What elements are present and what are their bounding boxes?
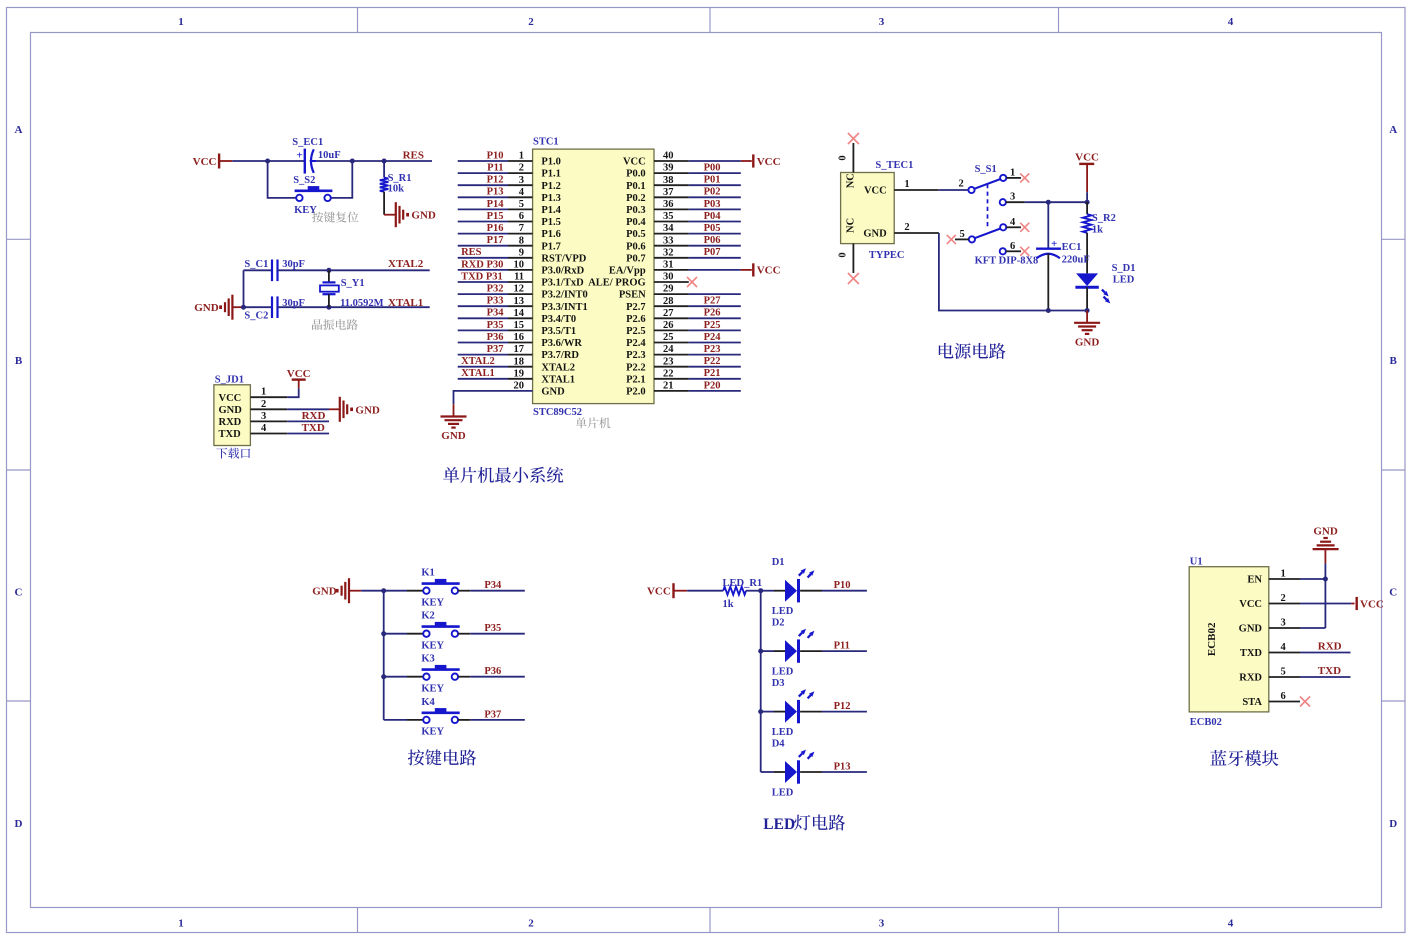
svg-text:STC89C52: STC89C52	[533, 407, 582, 418]
svg-text:36: 36	[663, 199, 674, 210]
svg-text:1k: 1k	[1092, 224, 1103, 235]
svg-text:18: 18	[514, 356, 525, 367]
svg-text:RES: RES	[461, 247, 482, 258]
svg-text:2: 2	[959, 178, 964, 189]
svg-text:LED: LED	[772, 606, 794, 617]
svg-text:P34: P34	[487, 308, 505, 319]
svg-text:0: 0	[838, 155, 849, 160]
svg-text:P2.2: P2.2	[626, 362, 646, 373]
svg-text:15: 15	[514, 320, 525, 331]
svg-text:4: 4	[261, 423, 267, 434]
svg-text:GND: GND	[312, 586, 337, 598]
svg-text:RXD: RXD	[1239, 673, 1262, 684]
svg-text:+: +	[1051, 238, 1057, 250]
svg-text:P37: P37	[484, 709, 501, 720]
svg-text:P0.1: P0.1	[626, 181, 646, 192]
svg-text:P33: P33	[487, 296, 504, 307]
svg-text:2: 2	[519, 163, 524, 174]
svg-text:5: 5	[960, 229, 965, 240]
svg-text:20: 20	[514, 381, 525, 392]
svg-text:P2.0: P2.0	[626, 387, 646, 398]
svg-text:K4: K4	[421, 697, 435, 708]
svg-text:P01: P01	[704, 175, 721, 186]
svg-text:P04: P04	[704, 211, 722, 222]
svg-text:TXD: TXD	[1240, 648, 1263, 659]
svg-text:P0.4: P0.4	[626, 217, 646, 228]
svg-text:STC1: STC1	[533, 137, 559, 148]
svg-text:P14: P14	[487, 199, 505, 210]
svg-text:2: 2	[1281, 593, 1286, 604]
svg-text:EC1: EC1	[1062, 242, 1082, 253]
svg-text:B: B	[15, 355, 23, 367]
svg-text:P0.3: P0.3	[626, 205, 646, 216]
svg-text:P11: P11	[487, 163, 503, 174]
svg-text:VCC: VCC	[864, 186, 887, 197]
svg-text:ECB02: ECB02	[1190, 717, 1222, 728]
svg-text:8: 8	[519, 235, 524, 246]
svg-text:ECB02: ECB02	[1206, 622, 1218, 656]
svg-text:S_TEC1: S_TEC1	[875, 160, 913, 171]
svg-text:11: 11	[514, 272, 524, 283]
svg-text:35: 35	[663, 211, 674, 222]
svg-text:13: 13	[514, 296, 525, 307]
svg-text:3: 3	[879, 918, 885, 930]
svg-text:1: 1	[178, 16, 184, 28]
svg-text:S_EC1: S_EC1	[292, 137, 323, 148]
svg-text:28: 28	[663, 296, 674, 307]
svg-text:P03: P03	[704, 199, 721, 210]
svg-text:S_S1: S_S1	[975, 164, 997, 175]
svg-text:5: 5	[1281, 667, 1286, 678]
svg-text:P2.6: P2.6	[626, 314, 646, 325]
svg-text:P1.5: P1.5	[541, 217, 561, 228]
svg-text:P05: P05	[704, 223, 721, 234]
svg-text:24: 24	[663, 344, 674, 355]
svg-text:TYPEC: TYPEC	[869, 250, 905, 261]
svg-text:P13: P13	[487, 187, 504, 198]
svg-text:GND: GND	[863, 229, 887, 240]
svg-text:10uF: 10uF	[318, 150, 341, 161]
svg-text:XTAL1: XTAL1	[541, 374, 575, 385]
svg-text:PSEN: PSEN	[619, 290, 646, 301]
svg-text:LED: LED	[1113, 275, 1135, 286]
svg-text:XTAL2: XTAL2	[541, 362, 575, 373]
svg-text:30: 30	[663, 272, 674, 283]
svg-text:26: 26	[663, 320, 674, 331]
svg-text:P16: P16	[487, 223, 504, 234]
svg-text:RES: RES	[403, 150, 424, 162]
svg-text:NC: NC	[846, 218, 857, 233]
svg-text:P0.0: P0.0	[626, 169, 646, 180]
svg-text:P0.2: P0.2	[626, 193, 646, 204]
svg-text:NC: NC	[846, 173, 857, 188]
svg-text:VCC: VCC	[287, 368, 311, 380]
svg-text:D2: D2	[772, 617, 785, 628]
svg-text:XTAL2: XTAL2	[388, 258, 424, 270]
svg-text:XTAL1: XTAL1	[388, 297, 423, 309]
svg-text:ALE/ PROG: ALE/ PROG	[588, 278, 645, 289]
svg-text:XTAL1: XTAL1	[461, 368, 495, 379]
svg-text:D: D	[15, 818, 23, 830]
svg-text:P24: P24	[704, 332, 722, 343]
svg-text:30pF: 30pF	[282, 298, 305, 309]
svg-text:P2.7: P2.7	[626, 302, 646, 313]
svg-text:P1.4: P1.4	[541, 205, 561, 216]
svg-text:TXD: TXD	[1318, 665, 1341, 677]
svg-text:LED_R1: LED_R1	[723, 578, 763, 589]
svg-text:VCC: VCC	[757, 156, 781, 168]
svg-text:P2.1: P2.1	[626, 374, 646, 385]
svg-text:RXD: RXD	[302, 410, 326, 422]
svg-text:P10: P10	[487, 150, 504, 161]
svg-text:VCC: VCC	[623, 157, 646, 168]
svg-text:P17: P17	[487, 235, 504, 246]
svg-text:P2.3: P2.3	[626, 350, 646, 361]
svg-text:39: 39	[663, 163, 674, 174]
svg-text:19: 19	[514, 368, 525, 379]
svg-text:25: 25	[663, 332, 674, 343]
svg-text:P27: P27	[704, 296, 721, 307]
svg-text:23: 23	[663, 356, 674, 367]
svg-text:1: 1	[261, 387, 266, 398]
svg-text:P34: P34	[484, 580, 502, 591]
svg-text:P37: P37	[487, 344, 504, 355]
svg-text:38: 38	[663, 175, 674, 186]
svg-text:S_R1: S_R1	[388, 173, 412, 184]
svg-text:P15: P15	[487, 211, 504, 222]
svg-text:KEY: KEY	[421, 640, 444, 651]
svg-text:5: 5	[519, 199, 524, 210]
svg-text:P1.3: P1.3	[541, 193, 561, 204]
svg-text:3: 3	[519, 175, 524, 186]
svg-text:220uF: 220uF	[1062, 255, 1090, 266]
svg-text:GND: GND	[194, 302, 219, 314]
svg-text:A: A	[1389, 124, 1397, 136]
svg-text:GND: GND	[411, 210, 436, 222]
svg-text:P2.4: P2.4	[626, 338, 646, 349]
svg-text:P1.0: P1.0	[541, 157, 561, 168]
svg-text:1k: 1k	[723, 599, 734, 610]
svg-text:P3.1/TxD: P3.1/TxD	[541, 278, 584, 289]
svg-text:LED: LED	[772, 666, 794, 677]
svg-text:1: 1	[178, 918, 184, 930]
svg-text:P23: P23	[704, 344, 721, 355]
svg-text:D3: D3	[772, 678, 785, 689]
svg-text:P36: P36	[487, 332, 504, 343]
svg-text:P1.7: P1.7	[541, 241, 561, 252]
svg-text:P1.6: P1.6	[541, 229, 561, 240]
svg-text:GND: GND	[219, 405, 243, 416]
svg-text:B: B	[1390, 355, 1398, 367]
svg-text:RST/VPD: RST/VPD	[541, 253, 586, 264]
svg-text:LED: LED	[772, 727, 794, 738]
svg-text:7: 7	[519, 223, 524, 234]
svg-text:P1.2: P1.2	[541, 181, 561, 192]
svg-text:3: 3	[1010, 192, 1015, 203]
svg-text:VCC: VCC	[219, 393, 242, 404]
svg-text:GND: GND	[541, 387, 565, 398]
svg-text:P35: P35	[484, 623, 501, 634]
svg-text:K2: K2	[421, 611, 434, 622]
svg-text:S_JD1: S_JD1	[215, 374, 244, 385]
svg-text:P0.5: P0.5	[626, 229, 646, 240]
svg-text:4: 4	[1010, 217, 1016, 228]
svg-text:P10: P10	[834, 580, 851, 591]
svg-text:P12: P12	[834, 701, 851, 712]
svg-text:K3: K3	[421, 654, 434, 665]
svg-text:3: 3	[261, 411, 266, 422]
svg-text:P3.4/T0: P3.4/T0	[541, 314, 576, 325]
svg-text:P35: P35	[487, 320, 504, 331]
svg-text:RXD P30: RXD P30	[461, 259, 503, 270]
svg-text:P36: P36	[484, 666, 501, 677]
svg-text:12: 12	[514, 284, 525, 295]
svg-text:XTAL2: XTAL2	[461, 356, 495, 367]
svg-text:EA/Vpp: EA/Vpp	[609, 266, 646, 277]
svg-text:3: 3	[879, 16, 885, 28]
svg-text:27: 27	[663, 308, 674, 319]
svg-text:VCC: VCC	[1239, 599, 1262, 610]
svg-text:P2.5: P2.5	[626, 326, 646, 337]
svg-text:VCC: VCC	[647, 586, 671, 598]
svg-text:30pF: 30pF	[282, 259, 305, 270]
svg-text:P0.6: P0.6	[626, 241, 646, 252]
svg-text:2: 2	[528, 918, 534, 930]
svg-text:P3.5/T1: P3.5/T1	[541, 326, 576, 337]
svg-text:S_C1: S_C1	[244, 259, 268, 270]
svg-text:33: 33	[663, 235, 674, 246]
svg-text:D4: D4	[772, 738, 786, 749]
svg-text:+: +	[296, 149, 302, 161]
svg-text:22: 22	[663, 368, 674, 379]
svg-text:VCC: VCC	[1360, 598, 1384, 610]
svg-text:4: 4	[1228, 918, 1234, 930]
svg-text:4: 4	[519, 187, 525, 198]
svg-text:S_R2: S_R2	[1092, 213, 1116, 224]
svg-text:P11: P11	[834, 641, 850, 652]
svg-text:29: 29	[663, 284, 674, 295]
svg-text:10: 10	[514, 260, 525, 271]
svg-text:P0.7: P0.7	[626, 253, 646, 264]
svg-text:P13: P13	[834, 761, 851, 772]
svg-text:GND: GND	[1313, 526, 1338, 538]
svg-text:KEY: KEY	[421, 597, 444, 608]
svg-text:RXD: RXD	[219, 417, 242, 428]
svg-text:1: 1	[1010, 167, 1015, 178]
svg-text:P3.0/RxD: P3.0/RxD	[541, 266, 584, 277]
svg-text:40: 40	[663, 151, 674, 162]
svg-text:EN: EN	[1247, 575, 1262, 586]
svg-text:2: 2	[261, 399, 266, 410]
svg-text:VCC: VCC	[757, 265, 781, 277]
svg-text:D1: D1	[772, 557, 785, 568]
svg-text:P25: P25	[704, 320, 721, 331]
svg-text:LED: LED	[763, 816, 795, 833]
svg-text:P20: P20	[704, 380, 721, 391]
svg-text:P00: P00	[704, 163, 721, 174]
svg-text:S_S2: S_S2	[293, 175, 315, 186]
svg-text:P22: P22	[704, 356, 721, 367]
svg-text:P02: P02	[704, 187, 721, 198]
svg-text:10k: 10k	[388, 184, 405, 195]
svg-text:16: 16	[514, 332, 525, 343]
svg-text:S_Y1: S_Y1	[341, 278, 365, 289]
svg-text:4: 4	[1281, 642, 1287, 653]
svg-text:P32: P32	[487, 284, 504, 295]
svg-text:VCC: VCC	[1075, 152, 1099, 164]
svg-text:6: 6	[519, 211, 524, 222]
svg-text:P07: P07	[704, 247, 721, 258]
svg-text:P21: P21	[704, 368, 721, 379]
svg-text:GND: GND	[355, 404, 380, 416]
svg-text:KFT DIP-8X8: KFT DIP-8X8	[975, 256, 1039, 267]
svg-text:STA: STA	[1242, 697, 1262, 708]
svg-text:VCC: VCC	[193, 156, 217, 168]
svg-text:P12: P12	[487, 175, 504, 186]
svg-text:GND: GND	[1239, 624, 1263, 635]
svg-text:4: 4	[1228, 16, 1234, 28]
svg-text:6: 6	[1281, 691, 1286, 702]
svg-text:RXD: RXD	[1318, 641, 1342, 653]
svg-text:21: 21	[663, 381, 674, 392]
svg-text:D: D	[1389, 818, 1397, 830]
svg-text:A: A	[15, 124, 23, 136]
svg-text:1: 1	[904, 179, 909, 190]
svg-text:1: 1	[1281, 569, 1286, 580]
svg-text:17: 17	[514, 344, 525, 355]
svg-text:0: 0	[838, 252, 849, 257]
svg-text:1: 1	[519, 151, 524, 162]
svg-text:TXD: TXD	[219, 429, 242, 440]
svg-text:31: 31	[663, 260, 674, 271]
svg-text:34: 34	[663, 223, 674, 234]
svg-text:C: C	[1389, 587, 1397, 599]
svg-text:KEY: KEY	[421, 727, 444, 738]
svg-text:TXD P31: TXD P31	[461, 271, 503, 282]
svg-text:P3.6/WR: P3.6/WR	[541, 338, 582, 349]
svg-text:2: 2	[904, 222, 909, 233]
svg-text:C: C	[15, 587, 23, 599]
svg-text:9: 9	[519, 247, 524, 258]
svg-text:S_D1: S_D1	[1112, 263, 1136, 274]
svg-text:K1: K1	[421, 568, 434, 579]
svg-text:P26: P26	[704, 308, 721, 319]
svg-text:P3.3/INT1: P3.3/INT1	[541, 302, 587, 313]
svg-text:32: 32	[663, 247, 674, 258]
svg-text:GND: GND	[441, 430, 466, 442]
svg-text:P3.2/INT0: P3.2/INT0	[541, 290, 587, 301]
svg-text:LED: LED	[772, 787, 794, 798]
svg-text:TXD: TXD	[302, 422, 325, 434]
svg-text:KEY: KEY	[421, 683, 444, 694]
svg-text:37: 37	[663, 187, 674, 198]
svg-text:2: 2	[528, 16, 534, 28]
svg-text:11.0592M: 11.0592M	[340, 298, 384, 309]
svg-text:14: 14	[514, 308, 525, 319]
svg-text:P1.1: P1.1	[541, 169, 561, 180]
svg-text:U1: U1	[1190, 557, 1203, 568]
svg-text:6: 6	[1010, 241, 1015, 252]
svg-text:GND: GND	[1075, 336, 1100, 348]
svg-text:P06: P06	[704, 235, 721, 246]
svg-text:S_C2: S_C2	[244, 311, 268, 322]
svg-text:3: 3	[1281, 618, 1286, 629]
svg-text:P3.7/RD: P3.7/RD	[541, 350, 579, 361]
